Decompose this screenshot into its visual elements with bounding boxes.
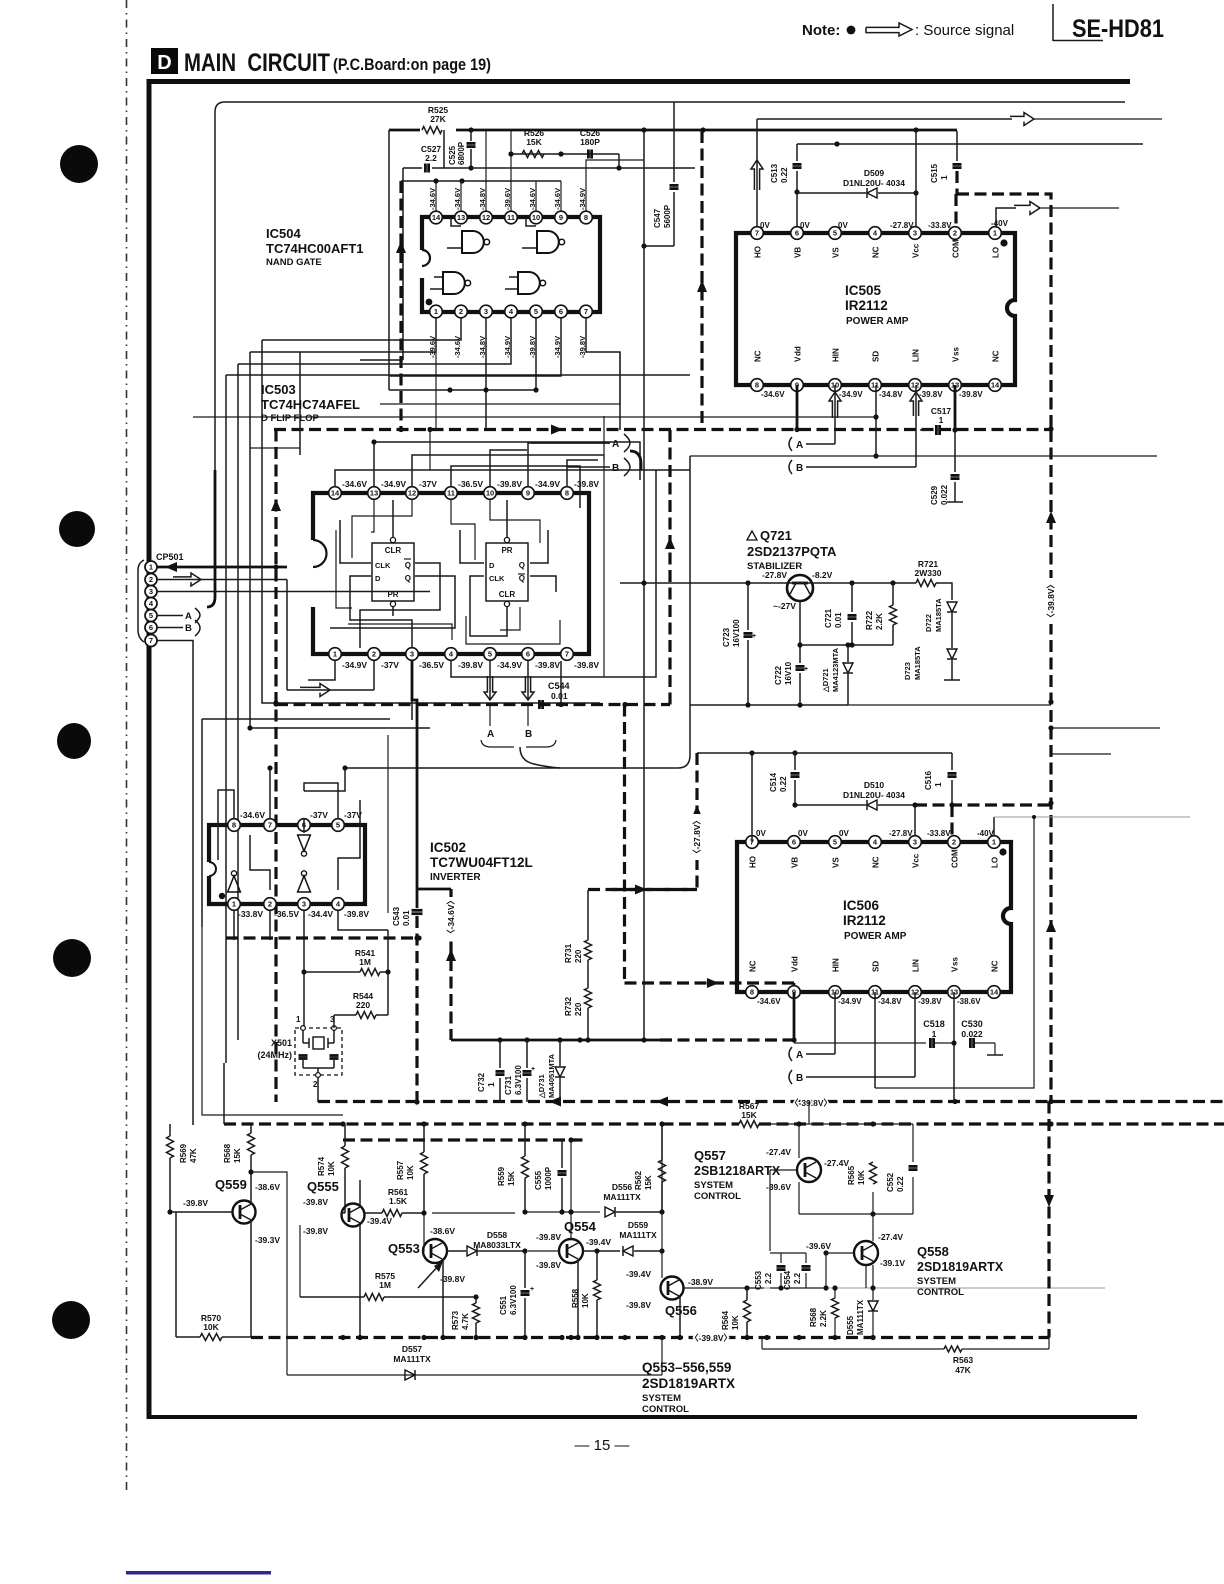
svg-text:-34.6V: -34.6V [761, 390, 785, 399]
svg-text:5600P: 5600P [663, 204, 672, 228]
bus -39.8V label y1102 [790, 1098, 832, 1108]
svg-text:7: 7 [149, 636, 153, 645]
Q557 label [694, 1148, 781, 1202]
svg-text:CLR: CLR [385, 546, 402, 555]
B bracket IC505 [789, 460, 916, 474]
wire trunk lines above IC503 [250, 352, 620, 460]
svg-text:-34.6V: -34.6V [453, 188, 462, 210]
IC504 label [266, 226, 364, 268]
wire mesh IC502 [218, 765, 360, 890]
resistor R563 loop [762, 1338, 1049, 1376]
svg-text:5: 5 [149, 611, 153, 620]
svg-text:10K: 10K [203, 1322, 219, 1332]
flip-flop U503b [486, 537, 528, 606]
svg-text:-39.8V: -39.8V [497, 479, 522, 489]
diode D558 [467, 1230, 528, 1256]
wire CP501 pin3 [157, 591, 430, 593]
wire y1115 [202, 927, 343, 1115]
resistor R559 [497, 1124, 529, 1212]
capacitor C723 [722, 583, 756, 705]
capacitor C721 [824, 583, 857, 645]
svg-text:-34.9V: -34.9V [578, 188, 587, 210]
svg-text:11: 11 [447, 489, 455, 498]
svg-text:0.01: 0.01 [402, 910, 411, 926]
wire X501 pin2 down [317, 1077, 319, 1102]
wire IC506 pin7 riser [749, 750, 754, 842]
svg-text:R563: R563 [953, 1355, 974, 1365]
resistor R732 [564, 988, 592, 1043]
svg-text:-39.8V: -39.8V [959, 390, 983, 399]
IC503 top pins [329, 487, 574, 500]
diode D555 [846, 1265, 878, 1337]
label B below [525, 705, 532, 740]
IC506 bottom pins [746, 986, 1001, 999]
wire B out IC503 [567, 466, 610, 468]
svg-text:-27.8V: -27.8V [762, 570, 787, 580]
Q559 voltage labels [183, 1182, 280, 1245]
svg-text:A: A [796, 440, 803, 451]
IC506 top voltage labels [756, 829, 995, 838]
svg-text:13: 13 [457, 213, 465, 222]
svg-text:0V: 0V [800, 221, 810, 230]
bus dashed around IC505 [274, 131, 1051, 435]
svg-text:-27.8V: -27.8V [890, 221, 914, 230]
svg-text:VB: VB [794, 247, 803, 258]
Q557 base wire [770, 1170, 797, 1251]
svg-text:2.2: 2.2 [764, 1272, 773, 1284]
svg-text:7: 7 [584, 307, 588, 316]
wire risers above IC504 [436, 131, 644, 211]
wire VB rail y144 [797, 141, 1143, 146]
svg-text:12: 12 [408, 489, 416, 498]
bus -27.8V label [691, 814, 702, 860]
svg-text:C722: C722 [774, 665, 783, 685]
svg-text:C732: C732 [477, 1072, 486, 1092]
svg-text:-37V: -37V [381, 660, 399, 670]
svg-text:R565: R565 [847, 1165, 856, 1185]
svg-text:C529: C529 [930, 485, 939, 505]
svg-text:-39.8V: -39.8V [574, 479, 599, 489]
svg-text:11: 11 [507, 213, 515, 222]
label A below [487, 705, 494, 740]
svg-text:〈-34.6V〉: 〈-34.6V〉 [446, 896, 456, 938]
svg-text:3: 3 [302, 900, 306, 909]
svg-text:2SD2137PQTA: 2SD2137PQTA [747, 544, 837, 559]
Q553 label [388, 1241, 420, 1256]
svg-text:5: 5 [534, 307, 538, 316]
resistor R568b [809, 1285, 839, 1337]
svg-text:-39.8V: -39.8V [458, 660, 483, 670]
svg-text:2: 2 [953, 229, 957, 238]
svg-text:10: 10 [532, 213, 540, 222]
svg-text:B: B [525, 729, 532, 740]
svg-text:MA111TX: MA111TX [393, 1354, 431, 1364]
svg-text:-38.6V: -38.6V [430, 1226, 455, 1236]
svg-text:C516: C516 [924, 770, 933, 790]
bus thick y1040 [451, 1037, 794, 1042]
svg-text:-38.6V: -38.6V [957, 997, 981, 1006]
svg-text:7: 7 [268, 821, 272, 830]
svg-text:-34.8V: -34.8V [478, 188, 487, 210]
svg-text:-27.8V: -27.8V [889, 829, 913, 838]
note text [802, 22, 855, 39]
svg-text:2SD1819ARTX: 2SD1819ARTX [917, 1260, 1004, 1274]
svg-text:R558: R558 [571, 1288, 580, 1308]
svg-text:+: + [752, 633, 756, 640]
svg-text:-40V: -40V [977, 829, 995, 838]
section label D box [151, 48, 178, 74]
IC U503 TC74HC74AFEL body [313, 493, 589, 654]
inverter U502c [298, 871, 311, 892]
wire CP501 pin7 [157, 641, 193, 1126]
IC505 label [845, 283, 909, 327]
capacitor C552 [886, 1166, 918, 1192]
svg-text:R568: R568 [223, 1143, 232, 1163]
svg-text:-34.6V: -34.6V [757, 997, 781, 1006]
transistor Q555 [342, 1204, 365, 1227]
Q555 voltage labels [303, 1197, 392, 1236]
Q558 voltage labels [806, 1232, 905, 1268]
svg-text:△D721: △D721 [821, 668, 830, 693]
wire y1212 row [432, 1209, 600, 1214]
resistor R562 [634, 1124, 666, 1212]
svg-text:HO: HO [749, 856, 758, 868]
wire mesh IC504 to IC503 [238, 318, 620, 430]
transistor Q556 [661, 1277, 684, 1300]
svg-text:12: 12 [911, 381, 919, 390]
svg-text:0.01: 0.01 [834, 612, 843, 628]
bus dashed y983 [625, 978, 795, 988]
NAND gate U504d [505, 272, 546, 294]
svg-text:14: 14 [990, 988, 999, 997]
svg-text:LIN: LIN [912, 959, 921, 972]
source arrow HO out [1010, 113, 1034, 126]
svg-text:TC7WU04FT12L: TC7WU04FT12L [430, 855, 533, 870]
transistor Q559 [233, 1201, 256, 1224]
A bracket mid [612, 434, 630, 452]
svg-text:2.2K: 2.2K [875, 613, 884, 630]
resistor R569 [167, 1124, 199, 1212]
wire rail y181 [401, 178, 561, 183]
IC U502 TC7WU04FT12L body [209, 825, 365, 904]
svg-text:D723: D723 [903, 662, 912, 680]
svg-text:NC: NC [872, 856, 881, 868]
svg-text:-39.8V: -39.8V [919, 390, 943, 399]
svg-text:-39.8V: -39.8V [303, 1226, 328, 1236]
wire IC504 left loop [389, 130, 403, 390]
svg-text:-33.8V: -33.8V [927, 829, 951, 838]
svg-text:A: A [185, 611, 192, 622]
svg-text:2.2K: 2.2K [819, 1310, 828, 1327]
svg-text:HIN: HIN [832, 348, 841, 362]
wire x662 [661, 1124, 663, 1278]
svg-text:R731: R731 [564, 943, 573, 963]
source arrow CP501 pin2 [173, 573, 201, 586]
svg-text:-34.6V: -34.6V [428, 188, 437, 210]
wire bundle left x238 [237, 364, 239, 1040]
svg-text:-34.8V: -34.8V [878, 997, 902, 1006]
svg-text:-36.5V: -36.5V [458, 479, 483, 489]
Q556 label [665, 1303, 697, 1318]
IC503 top voltage labels [342, 479, 599, 489]
capacitor C513 [770, 163, 802, 183]
svg-text:A: A [796, 1050, 803, 1061]
resistor R541 [304, 948, 391, 976]
svg-text:15K: 15K [644, 1175, 653, 1190]
svg-text:10K: 10K [581, 1293, 590, 1308]
bus dashed y1337 bottom [251, 1335, 1049, 1340]
svg-text:16V10: 16V10 [784, 661, 793, 685]
title PC board note [333, 55, 491, 74]
svg-text:3: 3 [149, 587, 153, 596]
svg-text:0V: 0V [838, 221, 848, 230]
wire Q721 mid y645 [800, 642, 893, 647]
svg-text:B: B [796, 1073, 803, 1084]
svg-text:6: 6 [792, 838, 796, 847]
wire VB riser C513 [794, 144, 799, 233]
diode D557 wire [287, 1338, 662, 1380]
Q558 label [917, 1244, 1004, 1298]
svg-text:1000P: 1000P [544, 1166, 553, 1190]
IC504 bottom pin voltage labels [428, 336, 587, 358]
wire thin x1034 [875, 817, 1034, 1088]
svg-text:SD: SD [872, 351, 881, 362]
svg-text:CLK: CLK [489, 574, 505, 583]
svg-text:△D731: △D731 [537, 1074, 546, 1099]
svg-text:D722: D722 [924, 614, 933, 632]
svg-text:NC: NC [992, 350, 1001, 362]
svg-text:14: 14 [432, 213, 441, 222]
svg-text:Vcc: Vcc [912, 853, 921, 868]
bottom blue bar [126, 1571, 271, 1575]
svg-text:IC503: IC503 [261, 382, 296, 397]
svg-text:-36.5V: -36.5V [274, 909, 299, 919]
svg-text:11: 11 [871, 381, 879, 390]
svg-text:D510: D510 [864, 780, 885, 790]
Q559 label [215, 1177, 247, 1192]
svg-text:MA4051MTA: MA4051MTA [547, 1053, 556, 1098]
IC503 bottom pins [329, 648, 574, 661]
svg-text:2: 2 [268, 900, 272, 909]
svg-text:+: + [531, 1066, 535, 1073]
svg-text:Q558: Q558 [917, 1244, 949, 1259]
capacitor C544 [539, 681, 569, 709]
svg-text:C544: C544 [548, 681, 570, 691]
svg-text:8: 8 [232, 821, 236, 830]
bus dashed -39.8V right [1046, 426, 1056, 1102]
svg-text:1M: 1M [379, 1280, 391, 1290]
svg-text:NC: NC [749, 960, 758, 972]
resistor R570 [176, 1212, 251, 1341]
binder punch hole 2 [59, 511, 95, 547]
svg-text:(P.C.Board:on page 19): (P.C.Board:on page 19) [333, 55, 491, 74]
svg-text:5: 5 [833, 229, 837, 238]
svg-text:5: 5 [833, 838, 837, 847]
IC506 bottom voltage labels [757, 997, 981, 1006]
flip-flop U503a [372, 537, 414, 606]
IC506 label [843, 898, 907, 942]
resistor R564 [721, 1288, 751, 1337]
wire box around IC503 label [226, 352, 690, 455]
svg-text:LIN: LIN [912, 349, 921, 362]
IC506 top pin names [749, 849, 1000, 868]
svg-text:-8.2V: -8.2V [812, 570, 833, 580]
svg-text:10K: 10K [406, 1165, 415, 1180]
svg-text:MA111TX: MA111TX [603, 1192, 641, 1202]
Q559 wires [167, 1169, 287, 1375]
svg-text:2: 2 [952, 838, 956, 847]
svg-text:Q553–556,559: Q553–556,559 [642, 1360, 731, 1375]
svg-text:3: 3 [410, 650, 414, 659]
svg-text:SD: SD [872, 961, 881, 972]
svg-text:R559: R559 [497, 1166, 506, 1186]
svg-text:: Source signal: : Source signal [915, 22, 1014, 39]
page number [574, 1437, 629, 1454]
binder punch hole 5 [52, 1301, 90, 1339]
svg-text:4.7K: 4.7K [461, 1313, 470, 1330]
svg-text:3: 3 [484, 307, 488, 316]
svg-text:2W330: 2W330 [915, 568, 942, 578]
svg-text:1: 1 [486, 1082, 496, 1087]
svg-text:-39.8V: -39.8V [535, 660, 560, 670]
svg-text:27K: 27K [430, 114, 446, 124]
svg-text:C513: C513 [770, 163, 779, 183]
svg-text:-34.8V: -34.8V [879, 390, 903, 399]
resistor R573 [451, 1297, 480, 1337]
svg-text:47K: 47K [189, 1148, 198, 1163]
bus dashed x670 riser [665, 430, 675, 705]
svg-text:-34.9V: -34.9V [497, 660, 522, 670]
svg-text:2: 2 [459, 307, 463, 316]
junction dots IC504 mesh [483, 387, 538, 392]
wire HIN pin10 drop [834, 385, 836, 444]
capacitor C555 [534, 1140, 567, 1212]
svg-text:14: 14 [991, 381, 1000, 390]
wire Vss pin13 drop2 [951, 992, 956, 1102]
svg-text:C543: C543 [392, 906, 401, 926]
wire bundle left x262 [262, 340, 600, 706]
connector CP501 [138, 552, 184, 647]
svg-text:1: 1 [939, 415, 944, 425]
B bracket mid [612, 451, 641, 476]
wire Vss pin13 drop [952, 385, 957, 472]
svg-text:C731: C731 [504, 1075, 513, 1095]
svg-text:1M: 1M [359, 957, 371, 967]
IC505 top pin names [754, 239, 1001, 258]
wire SD pin11 drop [193, 385, 879, 459]
svg-text:MA185TA: MA185TA [913, 646, 922, 680]
svg-text:~-27V: ~-27V [773, 601, 796, 611]
capacitor C722 [774, 661, 808, 705]
svg-text:C515: C515 [930, 163, 939, 183]
transistor Q553 [423, 1239, 447, 1263]
svg-text:C525: C525 [448, 145, 457, 165]
svg-text:(24MHz): (24MHz) [257, 1050, 292, 1060]
svg-text:-39.8V: -39.8V [574, 660, 599, 670]
resistor R567 [739, 1101, 760, 1128]
capacitor C526 [580, 128, 601, 159]
svg-text:+: + [804, 666, 808, 673]
svg-text:VB: VB [791, 857, 800, 868]
svg-text:POWER AMP: POWER AMP [844, 931, 907, 942]
IC505 LO dot [1000, 239, 1007, 246]
svg-text:Q: Q [405, 561, 411, 570]
bus dashed y1140 [343, 1137, 586, 1142]
svg-text:-34.9V: -34.9V [839, 390, 863, 399]
svg-text:-39.8V: -39.8V [344, 909, 369, 919]
svg-text:5: 5 [488, 650, 492, 659]
wire bundle left x213 [207, 470, 215, 607]
svg-text:14: 14 [331, 489, 340, 498]
svg-text:2.2: 2.2 [425, 153, 437, 163]
Q554 wires [528, 1140, 578, 1337]
IC U506 IR2112 body [737, 842, 1011, 992]
svg-text:-39.1V: -39.1V [880, 1258, 905, 1268]
resistor R565 [847, 1162, 877, 1185]
svg-text:-34.4V: -34.4V [308, 909, 333, 919]
svg-text:D: D [157, 52, 171, 74]
svg-text:-39.4V: -39.4V [367, 1216, 392, 1226]
svg-text:-39.8V: -39.8V [536, 1260, 561, 1270]
svg-text:TC74HC74AFEL: TC74HC74AFEL [261, 397, 360, 412]
svg-text:10K: 10K [857, 1170, 866, 1185]
svg-text:7: 7 [565, 650, 569, 659]
svg-text:〈-39.8V〉: 〈-39.8V〉 [690, 1333, 732, 1343]
svg-text:-39.8V: -39.8V [440, 1274, 465, 1284]
svg-text:-34.6V: -34.6V [553, 188, 562, 210]
svg-text:220: 220 [574, 1002, 583, 1016]
svg-text:-39.8V: -39.8V [303, 1197, 328, 1207]
label Q553-556 [642, 1360, 735, 1415]
svg-text:R569: R569 [179, 1143, 188, 1163]
svg-text:C552: C552 [886, 1172, 895, 1192]
wire box around IC502 [202, 719, 390, 927]
svg-text:-39.8V: -39.8V [536, 1232, 561, 1242]
wire offpage y754 [1051, 753, 1111, 755]
resistor R722 [865, 583, 897, 645]
wire pin3 down x304 [301, 911, 306, 1028]
svg-text:CLK: CLK [375, 561, 391, 570]
svg-text:D558: D558 [487, 1230, 508, 1240]
wire Q721 main y583 [620, 580, 916, 585]
wire HO out y119 [757, 118, 1162, 120]
svg-text:X501: X501 [271, 1038, 292, 1048]
svg-text:C547: C547 [653, 208, 662, 228]
svg-text:MAIN CIRCUIT: MAIN CIRCUIT [184, 49, 330, 77]
svg-text:C551: C551 [499, 1295, 508, 1315]
svg-text:0.01: 0.01 [551, 691, 568, 701]
transistor Q557 [797, 1158, 821, 1182]
svg-text:C555: C555 [534, 1170, 543, 1190]
svg-text:MA111TX: MA111TX [856, 1299, 865, 1335]
svg-text:8: 8 [584, 213, 588, 222]
svg-text:D: D [375, 574, 381, 583]
B bracket IC506 [789, 1070, 915, 1084]
wire X501 pin3 up [333, 1015, 335, 1028]
wire LO out y208 [996, 208, 1119, 233]
capacitor C732 [477, 1040, 505, 1102]
capacitor C547 [641, 131, 678, 249]
IC505 bottom voltage labels [761, 390, 983, 399]
svg-text:1: 1 [333, 650, 337, 659]
bus dashed IC504 left [396, 181, 406, 429]
bus -39.8V label bottom [690, 1333, 732, 1343]
svg-text:C530: C530 [961, 1019, 983, 1029]
wire A B join brace [481, 740, 560, 768]
svg-text:Q: Q [519, 561, 525, 570]
svg-text:CP501: CP501 [156, 552, 184, 562]
resistor R721 [915, 559, 952, 600]
